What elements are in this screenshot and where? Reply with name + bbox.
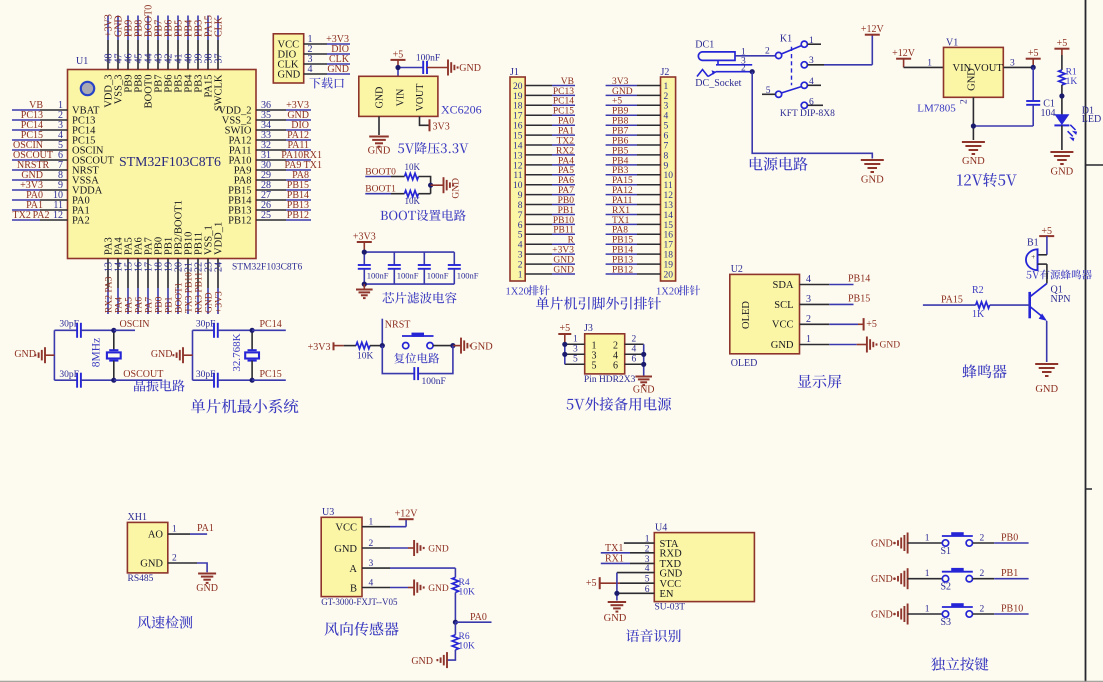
wire BOOT0 resistor to junction <box>419 177 431 194</box>
ground (S3) <box>871 604 908 625</box>
J1 pin 13 net RX2 <box>513 146 575 161</box>
wire R2 to Q1 base <box>990 304 1030 306</box>
svg-text:+5: +5 <box>866 319 877 330</box>
J2 pin 6 net PB7 <box>606 127 669 142</box>
U1 pin 33 (PA12) net PA12 <box>229 130 311 146</box>
svg-text:16: 16 <box>513 122 523 132</box>
svg-text:9: 9 <box>664 161 669 171</box>
ground (power circuit) <box>861 160 884 186</box>
svg-text:104: 104 <box>1041 108 1056 119</box>
svg-text:3V3: 3V3 <box>612 77 629 87</box>
U2 pin 2 (VCC) <box>772 314 877 331</box>
svg-text:GND: GND <box>151 349 173 360</box>
svg-text:GND: GND <box>368 146 391 157</box>
svg-text:PA2: PA2 <box>72 216 90 227</box>
U1 pin 24 (VDD_1) net +3V3 <box>213 222 224 314</box>
svg-text:NPN: NPN <box>1051 294 1071 305</box>
svg-text:+3V3: +3V3 <box>215 291 225 313</box>
svg-text:GND: GND <box>428 584 449 594</box>
caption voice recognition <box>626 629 681 642</box>
U1 pin 15 (PA5) net PA5 <box>123 237 134 314</box>
svg-text:VCC: VCC <box>772 320 794 331</box>
wire switch pin3 to +12V <box>824 35 872 65</box>
svg-text:PB0: PB0 <box>1001 532 1018 543</box>
connector J1 body <box>510 67 525 281</box>
U3 pin 4 (B) <box>350 579 449 596</box>
svg-text:PA4: PA4 <box>558 156 574 166</box>
J2 pin 16 net PA8 <box>606 226 674 241</box>
U1 pin 46 (PB9) net PB9 <box>123 16 134 93</box>
svg-text:B1: B1 <box>1027 238 1039 249</box>
svg-text:100nF: 100nF <box>416 54 440 64</box>
svg-text:PA7: PA7 <box>145 297 155 313</box>
svg-text:RS485: RS485 <box>128 574 154 584</box>
svg-text:VOUT: VOUT <box>415 84 426 112</box>
svg-text:GT-3000-FXJT--V05: GT-3000-FXJT--V05 <box>321 597 398 607</box>
svg-text:PA6: PA6 <box>558 176 574 186</box>
J2 pin 17 net PB15 <box>606 236 674 251</box>
svg-text:4: 4 <box>664 112 669 122</box>
svg-text:GND: GND <box>553 265 574 275</box>
U1 pin 44 (BOOT0) net BOOT0 <box>143 5 154 109</box>
caption 5V backup power <box>567 397 672 410</box>
svg-text:XH1: XH1 <box>128 512 147 523</box>
J2 pin 9 net PB4 <box>606 156 669 171</box>
net PC15 stub <box>250 369 286 383</box>
svg-text:RX3 PB11: RX3 PB11 <box>195 272 205 313</box>
svg-text:3: 3 <box>1010 58 1015 68</box>
U1 part number label <box>232 263 302 273</box>
svg-text:GND: GND <box>140 559 163 570</box>
U1 pin 23 (VSS_1) net GND <box>203 225 214 314</box>
svg-text:GND: GND <box>880 341 901 351</box>
svg-text:J2: J2 <box>661 67 670 78</box>
J1 pin 9 net PA7 <box>518 186 575 201</box>
wire ground to S3 <box>908 613 943 615</box>
svg-text:PB3: PB3 <box>612 166 629 176</box>
svg-text:PA5: PA5 <box>558 166 574 176</box>
U1 pin 12 (PA2) net TX2 PA2 <box>12 210 90 226</box>
wire ground to S2 <box>908 578 943 580</box>
U1 pin 3 (PC14) net PC14 <box>12 120 96 136</box>
push button S3 <box>925 603 985 628</box>
svg-text:2: 2 <box>632 335 637 345</box>
svg-text:PB6: PB6 <box>612 136 629 146</box>
capacitor 30pF (crystal1 bottom) <box>54 370 113 388</box>
J2 pin 19 net PB13 <box>606 256 674 271</box>
svg-text:14: 14 <box>513 141 523 151</box>
svg-text:GND: GND <box>871 574 893 585</box>
svg-text:PA4: PA4 <box>115 297 125 313</box>
svg-text:8: 8 <box>518 201 523 211</box>
U1 pin 40 (PB4) net PB4 <box>183 16 194 93</box>
svg-text:15: 15 <box>513 132 523 142</box>
J1 pin 20 net VB <box>513 77 575 92</box>
ground (R6) <box>411 652 447 668</box>
U4 pin 3 (TXD) <box>601 553 682 570</box>
U1 pin 19 (PB1) net PB1 <box>163 237 174 314</box>
U1 pin 38 (PA15) net PA15 <box>203 15 214 97</box>
connector J3 body <box>584 323 625 374</box>
caption BOOT setting circuit <box>381 209 466 221</box>
J1 pin 16 net PA0 <box>513 117 575 132</box>
U2 pin 4 (SDA) <box>772 274 870 291</box>
svg-text:PA1: PA1 <box>558 127 574 137</box>
U1 pin 43 (PB7) net PB7 <box>153 16 164 93</box>
svg-text:PB13: PB13 <box>612 256 633 266</box>
svg-text:GND: GND <box>278 70 301 81</box>
svg-text:U3: U3 <box>322 507 334 518</box>
J1 pin 15 net PA1 <box>513 127 575 142</box>
svg-text:PB4: PB4 <box>612 156 629 166</box>
caption crystal circuit <box>134 380 185 392</box>
svg-text:1: 1 <box>927 58 932 68</box>
J1 pin 5 net PB11 <box>518 226 575 241</box>
svg-text:STM32F103C8T6: STM32F103C8T6 <box>119 154 221 169</box>
svg-text:TX2: TX2 <box>13 210 31 221</box>
sensor U3 body <box>321 507 362 597</box>
svg-text:SDA: SDA <box>772 280 793 291</box>
svg-text:1: 1 <box>925 533 930 543</box>
U1 pin 16 (PA6) net PA6 <box>133 237 144 314</box>
svg-text:100nF: 100nF <box>427 271 449 281</box>
net PA0 stub <box>455 612 491 623</box>
svg-text:OLED: OLED <box>741 301 752 329</box>
J1 pin 8 net PB0 <box>518 196 575 211</box>
svg-text:4: 4 <box>518 241 523 251</box>
label XC6206 <box>441 103 482 117</box>
ground (crystal2) <box>151 347 193 363</box>
svg-text:TX3 PB10: TX3 PB10 <box>185 272 195 313</box>
svg-text:3: 3 <box>809 56 814 66</box>
svg-text:PA6: PA6 <box>135 297 145 313</box>
power port +5 (J3) <box>558 323 571 344</box>
caption download port <box>309 77 343 88</box>
J2 pin 14 net RX1 <box>606 206 674 221</box>
svg-text:10K: 10K <box>459 641 476 651</box>
wire filter cap bottom bus <box>364 283 454 285</box>
push button S2 <box>925 568 985 593</box>
wire DC ground run <box>752 72 872 159</box>
svg-text:PA0: PA0 <box>558 117 574 127</box>
capacitor 30pF (crystal2 top) <box>193 319 253 338</box>
svg-text:U1: U1 <box>76 56 88 67</box>
svg-text:RX2: RX2 <box>556 146 574 156</box>
U1 pin 45 (PB8) net PB8 <box>133 16 144 93</box>
ground (S2) <box>871 568 908 589</box>
svg-text:2: 2 <box>765 47 770 57</box>
net label BOOT0 wire <box>365 167 404 177</box>
wire resistor to NRST node <box>370 345 382 347</box>
svg-text:7: 7 <box>664 141 669 151</box>
label J2 1X20 header <box>656 285 700 297</box>
download port pin 3 (CLK) net CLK <box>278 54 351 70</box>
svg-text:GND: GND <box>871 539 893 550</box>
ground (reset) <box>461 338 493 354</box>
svg-text:+5: +5 <box>586 578 597 589</box>
wire button to right node <box>433 345 453 347</box>
capacitor C1 104 <box>1026 67 1055 126</box>
svg-text:4: 4 <box>809 77 814 87</box>
resistor 10K (BOOT1) <box>405 191 421 207</box>
svg-text:S2: S2 <box>941 582 952 593</box>
U1 pin 28 (PB15) net PB15 <box>228 180 311 196</box>
wire J3 left +5 rail <box>562 342 567 365</box>
power port +5 (regulator input) <box>391 49 406 67</box>
svg-text:PB1: PB1 <box>1001 568 1018 579</box>
svg-text:GND: GND <box>633 385 655 396</box>
net label BOOT1 wire <box>365 184 404 194</box>
wire ground to S1 <box>908 542 943 544</box>
caption MCU pin breakout headers <box>536 297 661 310</box>
caption wind direction sensor <box>325 622 399 636</box>
label GT-3000-FXJT--V05 <box>321 597 398 607</box>
junction PA0 node <box>453 620 458 625</box>
U1 pin 39 (PB3) net PB3 <box>193 16 204 93</box>
wire C1 bottom to V1 GND pin <box>973 125 1033 127</box>
svg-text:+5: +5 <box>612 97 622 107</box>
label KFT DIP-8X8 <box>780 109 835 119</box>
J2 pin 10 net PB3 <box>606 166 674 181</box>
svg-text:3V3: 3V3 <box>433 121 450 132</box>
svg-text:2: 2 <box>806 314 811 325</box>
U1 pin 25 (PB12) net PB12 <box>228 210 311 226</box>
wire buzzer to Q1 collector <box>1038 264 1047 283</box>
wire crystal2 left rail <box>192 330 194 380</box>
label J1 1X20 header <box>506 285 550 297</box>
svg-text:6: 6 <box>664 132 669 142</box>
power port +5 (V1 output) <box>1026 48 1041 67</box>
svg-text:2: 2 <box>980 569 985 579</box>
svg-text:XC6206: XC6206 <box>441 103 482 117</box>
connector J2 body <box>661 67 676 281</box>
resistor R2 1K <box>972 285 990 320</box>
caption 12V to 5V <box>957 173 1017 187</box>
J1 pin 6 net PB10 <box>518 216 575 231</box>
U1 pin 7 (NRST) net NRSTR <box>12 160 99 176</box>
svg-text:DC_Socket: DC_Socket <box>695 78 741 89</box>
junction V1 output <box>1031 65 1036 70</box>
svg-text:4: 4 <box>632 345 637 355</box>
wire crystal1 left rail <box>53 330 55 380</box>
U1 pin 14 (PA4) net PA4 <box>113 237 124 314</box>
svg-text:1: 1 <box>806 334 811 345</box>
svg-text:A: A <box>349 564 357 575</box>
svg-text:PB0: PB0 <box>558 196 575 206</box>
U1 pin 35 (VSS_2) net GND <box>222 110 311 126</box>
svg-text:6: 6 <box>809 97 814 107</box>
svg-text:J3: J3 <box>584 323 593 334</box>
J2 pin 5 net PB8 <box>606 117 669 132</box>
U1 pin 21 (PB10) net TX3 PB10 <box>183 232 194 314</box>
svg-text:KFT DIP-8X8: KFT DIP-8X8 <box>780 109 835 119</box>
svg-text:30pF: 30pF <box>59 370 79 380</box>
svg-text:GND: GND <box>452 178 462 199</box>
svg-text:2: 2 <box>664 92 669 102</box>
ground (J3) <box>633 377 655 396</box>
U1 pin 42 (PB6) net PB6 <box>163 16 174 93</box>
label Pin HDR2X3 <box>584 375 636 385</box>
svg-text:STM32F103C8T6: STM32F103C8T6 <box>232 263 302 273</box>
svg-text:+12V: +12V <box>395 509 419 520</box>
svg-text:EN: EN <box>660 589 674 600</box>
J3 pin 2 <box>613 335 644 352</box>
label SU-03T <box>655 603 686 613</box>
resistor R4 10K <box>452 568 475 598</box>
svg-text:9: 9 <box>518 191 523 201</box>
svg-text:2: 2 <box>980 604 985 614</box>
crystal Y1 8MHz <box>91 330 121 380</box>
wire filter cap top bus <box>364 251 454 253</box>
wire V1 VOUT to +5 node <box>1003 58 1033 68</box>
svg-text:GND: GND <box>459 63 481 74</box>
U1 pin 4 (PC15) net PC15 <box>12 130 95 146</box>
svg-text:5: 5 <box>766 86 771 96</box>
svg-text:14: 14 <box>664 211 674 221</box>
ground (filter caps) <box>356 284 373 298</box>
svg-text:PB9: PB9 <box>612 107 629 117</box>
svg-text:NRST: NRST <box>385 319 411 330</box>
resistor 10K (reset) <box>356 342 374 361</box>
junction +5 node <box>395 65 400 70</box>
wire J3 right ground rail <box>641 344 646 375</box>
svg-text:R: R <box>568 236 575 246</box>
U1 pin 2 (PC13) net PC13 <box>12 110 95 126</box>
svg-text:13: 13 <box>664 201 674 211</box>
wire junction to ground <box>431 184 444 186</box>
svg-text:GND: GND <box>411 656 433 667</box>
capacitor 100nF (filter 1) <box>358 252 389 284</box>
svg-text:PB15: PB15 <box>612 236 633 246</box>
J3 pin 4 <box>613 345 644 362</box>
svg-text:PA7: PA7 <box>558 186 574 196</box>
svg-text:2: 2 <box>980 533 985 543</box>
svg-text:100nF: 100nF <box>397 271 419 281</box>
J1 pin 4 net R <box>518 236 575 251</box>
power port +5 (LED) <box>1054 38 1069 55</box>
svg-text:10: 10 <box>664 171 674 181</box>
J2 pin 7 net PB6 <box>606 136 669 151</box>
svg-text:12: 12 <box>664 191 674 201</box>
svg-text:30pF: 30pF <box>196 370 216 380</box>
svg-text:19: 19 <box>664 261 674 271</box>
svg-text:18: 18 <box>664 251 674 261</box>
svg-text:13: 13 <box>513 151 523 161</box>
caption buzzer <box>962 364 1006 378</box>
svg-text:24: 24 <box>213 262 224 272</box>
svg-text:19: 19 <box>513 92 523 102</box>
J3 pin 3 <box>565 345 597 362</box>
ground (V1) <box>962 142 985 167</box>
J2 pin 4 net PB9 <box>606 107 669 122</box>
J2 pin 8 net PB5 <box>606 146 669 161</box>
wire +5 to buzzer <box>1038 236 1047 255</box>
J2 pin 18 net PB14 <box>606 246 674 261</box>
V1 pin 2 wire <box>960 97 974 140</box>
svg-text:BOOT1: BOOT1 <box>175 282 185 313</box>
power port +3V3 (reset) <box>308 342 334 353</box>
power port 3V3 (regulator output) <box>430 119 450 132</box>
download port pin 4 (GND) net GND <box>278 64 351 80</box>
svg-text:17: 17 <box>513 112 523 122</box>
svg-text:VIN: VIN <box>396 89 407 107</box>
U2 pin 1 (GND) <box>771 334 900 353</box>
svg-text:U2: U2 <box>731 264 743 275</box>
svg-text:AO: AO <box>148 530 164 541</box>
svg-text:30pF: 30pF <box>59 319 79 329</box>
J1 pin 14 net TX2 <box>513 136 575 151</box>
svg-text:+3V3: +3V3 <box>353 232 376 243</box>
ground (regulator) <box>368 137 391 157</box>
svg-text:S1: S1 <box>941 546 952 557</box>
U1 pin 5 (OSCIN) net OSCIN <box>12 140 104 156</box>
svg-text:15: 15 <box>664 221 674 231</box>
power port +12V (power circuit) <box>861 24 885 35</box>
J1 pin 19 net PC13 <box>513 87 575 102</box>
svg-text:PB10: PB10 <box>553 216 574 226</box>
svg-text:+5: +5 <box>559 323 570 334</box>
junction NRST left <box>380 343 385 348</box>
caption 5V to 3.3V <box>398 142 468 154</box>
svg-text:8MHz: 8MHz <box>91 338 103 367</box>
svg-text:GND: GND <box>967 68 978 91</box>
svg-text:GND: GND <box>604 613 627 624</box>
svg-text:+12V: +12V <box>861 24 885 35</box>
wire reset cap loop <box>382 346 453 374</box>
U1 pin 48 (VDD_3) net +3V3 <box>103 14 114 108</box>
svg-text:RX1: RX1 <box>605 553 624 564</box>
svg-text:GND: GND <box>771 340 794 351</box>
U1 pin 27 (PB14) net PB14 <box>228 190 311 206</box>
J2 pin 13 net PA11 <box>606 196 674 211</box>
ground (crystal1) <box>14 347 54 363</box>
svg-text:5: 5 <box>664 122 669 132</box>
svg-text:PA12: PA12 <box>612 186 633 196</box>
svg-text:VIN VOUT: VIN VOUT <box>953 63 1004 74</box>
svg-text:LED: LED <box>1082 114 1101 125</box>
svg-text:3: 3 <box>806 294 811 305</box>
U1 pin 8 (VSSA) net GND <box>12 170 99 186</box>
U1 pin 29 (PA8) net PA8 <box>234 170 311 186</box>
svg-text:GND: GND <box>553 256 574 266</box>
svg-text:17: 17 <box>664 241 674 251</box>
svg-text:GND: GND <box>871 610 893 621</box>
svg-text:PC15: PC15 <box>553 107 574 117</box>
svg-text:7: 7 <box>518 211 523 221</box>
U4 pin 1 (STA) <box>624 535 679 550</box>
svg-text:+3V3: +3V3 <box>552 246 574 256</box>
J1 pin 18 net PC14 <box>513 97 575 112</box>
svg-text:PC13: PC13 <box>553 87 574 97</box>
push button reset switch <box>402 333 434 349</box>
power port +5 (buzzer) <box>1039 226 1054 237</box>
U4 pin 6 (EN) <box>617 585 674 600</box>
U4 pin 2 (RXD) <box>601 543 682 560</box>
wire S2 to PB1 <box>973 568 1029 579</box>
svg-text:2: 2 <box>518 261 523 271</box>
svg-text:GND: GND <box>962 156 985 167</box>
U3 pin 2 (GND) <box>334 539 449 556</box>
svg-text:SCL: SCL <box>774 300 793 311</box>
svg-text:PA8: PA8 <box>612 226 628 236</box>
ground (buzzer) <box>1035 364 1058 395</box>
svg-text:GND: GND <box>1051 167 1074 178</box>
net PA15 wire <box>923 295 976 306</box>
wire Q1 emitter to ground <box>1046 321 1048 362</box>
svg-text:GND: GND <box>861 175 884 186</box>
svg-text:PB10: PB10 <box>1001 603 1023 614</box>
J2 pin 1 net 3V3 <box>606 77 669 92</box>
